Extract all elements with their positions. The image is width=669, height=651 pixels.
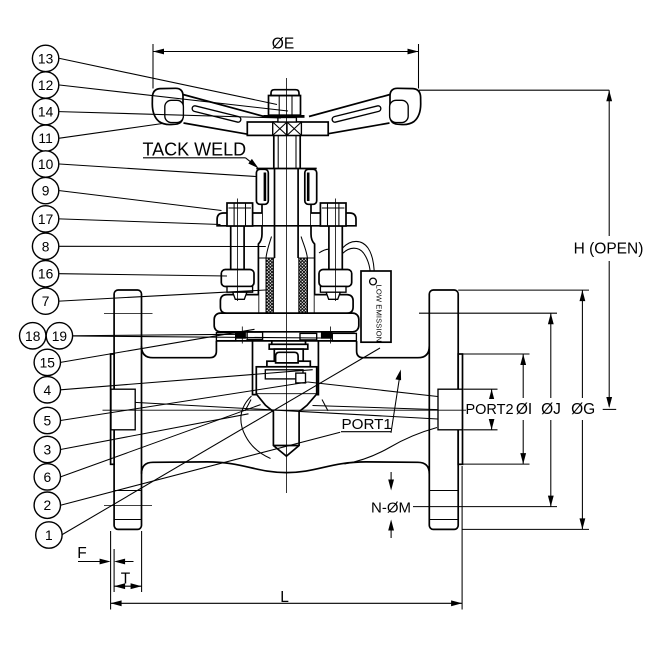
circle 19 — [46, 323, 72, 349]
svg-text:10: 10 — [38, 157, 54, 172]
low emission tag — [361, 271, 391, 342]
svg-text:11: 11 — [38, 131, 52, 146]
leader 17 — [60, 219, 221, 225]
stuffing bore flare left — [266, 237, 272, 259]
PORT1 leader — [391, 373, 400, 433]
leader 18 — [46, 334, 236, 336]
HANDWHEEL GROUP — [152, 88, 420, 135]
bolt shank left — [231, 226, 244, 270]
main vertical centerline — [286, 78, 288, 493]
packing column right (hatched) — [299, 258, 308, 313]
bolt shank right — [329, 226, 342, 270]
dim OE line — [153, 51, 419, 53]
dim T extension line — [141, 531, 143, 592]
disc nut step — [267, 361, 310, 367]
DIMENSIONS GROUP — [77, 36, 643, 610]
circle 10 — [32, 151, 58, 177]
dim H top reference line — [419, 89, 609, 91]
svg-text:16: 16 — [38, 267, 54, 282]
dim F extension lines — [111, 531, 115, 610]
dim PORT2 extension lines — [464, 389, 498, 430]
leader 10 — [60, 164, 257, 177]
svg-text:3: 3 — [43, 443, 51, 458]
dim H bottom tick — [603, 408, 617, 410]
leader 9 — [60, 191, 222, 211]
bonnet flange — [214, 313, 359, 332]
washer under nut (thick) — [264, 115, 305, 118]
dim L line — [111, 602, 463, 604]
dim OE extension lines — [153, 44, 419, 89]
bolt hole lines left flange — [114, 491, 141, 520]
bolt lower boss left — [221, 270, 254, 287]
svg-text:ØI: ØI — [516, 401, 532, 418]
svg-text:15: 15 — [40, 355, 56, 370]
seat edge left — [245, 400, 251, 411]
gland wing plate right — [311, 213, 356, 226]
rim knob right — [390, 88, 421, 124]
svg-text:N-ØM: N-ØM — [371, 500, 411, 517]
stuffing bore flare right — [301, 237, 307, 259]
circle 14 — [32, 98, 58, 124]
gland sleeve — [262, 169, 311, 226]
svg-text:19: 19 — [52, 329, 68, 344]
svg-text:L: L — [280, 589, 289, 606]
ITEM CIRCLES GROUP — [20, 45, 73, 548]
leader disc to port2 b — [313, 406, 438, 410]
spoke left — [183, 95, 264, 135]
svg-text:18: 18 — [25, 329, 41, 344]
internal wall left — [241, 396, 271, 459]
wire to tag — [319, 249, 329, 253]
flange left — [114, 290, 141, 529]
stem square top — [278, 118, 297, 123]
LABELS GROUP — [143, 140, 402, 433]
bolt lower boss right — [319, 270, 352, 287]
svg-text:ØE: ØE — [272, 36, 294, 53]
seat edge right — [322, 400, 328, 411]
port horizontal centerline — [103, 409, 467, 411]
disc holder box — [256, 367, 316, 394]
VALVE BODY GROUP — [111, 290, 463, 529]
disc spacer plate — [265, 370, 303, 379]
leader 7 — [60, 290, 266, 301]
dim OJ line — [550, 313, 552, 506]
labels row: PORT2 OI OJ OG — [464, 399, 593, 419]
svg-text:2: 2 — [43, 498, 51, 513]
gland wing plate left — [217, 213, 262, 226]
dim T line + arrows — [114, 585, 142, 587]
circle 7 — [32, 288, 58, 314]
bolt centerlines — [237, 199, 335, 302]
TAG GROUP — [319, 241, 391, 342]
svg-text:PORT1: PORT1 — [342, 416, 392, 433]
bonnet hex right end — [315, 295, 354, 314]
body chamber walls — [253, 341, 319, 395]
svg-text:T: T — [121, 571, 131, 588]
stem through gland — [275, 169, 299, 258]
circle 11 — [32, 125, 58, 151]
circle 13 — [32, 45, 58, 71]
circle 1 — [36, 522, 62, 548]
bonnet lower neck through body top — [272, 341, 306, 344]
dim PORT2 line — [491, 389, 493, 430]
dim L extension line right — [461, 466, 463, 610]
leader 6 — [61, 405, 261, 477]
rim knob left — [152, 88, 183, 124]
leader 3 — [61, 414, 249, 450]
gland top line — [256, 168, 316, 170]
packing column left (hatched) — [266, 258, 273, 313]
svg-text:5: 5 — [43, 414, 51, 429]
circle 17 — [32, 206, 58, 232]
bonnet hex left end — [220, 295, 258, 314]
leader 14 — [60, 112, 282, 118]
flange right — [429, 290, 458, 529]
svg-text:ØG: ØG — [571, 401, 595, 418]
dim OG extension lines — [458, 290, 589, 529]
hub top right — [357, 341, 430, 358]
dim OI line — [522, 354, 524, 464]
stem tip cap — [276, 352, 299, 363]
circle 16 — [32, 261, 58, 287]
svg-text:4: 4 — [43, 383, 51, 398]
circle 4 — [34, 377, 60, 403]
circle 2 — [34, 492, 60, 518]
hub band — [247, 122, 328, 135]
circle 18 — [20, 323, 46, 349]
dim OG line — [581, 290, 583, 529]
gasket square right — [321, 332, 332, 339]
circle 9 — [32, 177, 58, 203]
spoke slot right — [332, 105, 382, 123]
dim N-OM arrows — [390, 472, 392, 538]
hub bottom + ogee body bottom — [142, 462, 430, 474]
stem guide block — [274, 349, 303, 361]
tag grommet — [370, 278, 377, 285]
LEADERS GROUP — [46, 58, 438, 535]
svg-text:ØJ: ØJ — [541, 401, 561, 418]
gland bolt nut left — [227, 203, 253, 226]
leader 2 — [61, 432, 341, 505]
stem upper (below handwheel) — [274, 135, 300, 169]
svg-text:8: 8 — [42, 239, 50, 254]
backseat collar — [269, 344, 308, 349]
svg-text:TACK WELD: TACK WELD — [143, 140, 247, 160]
svg-text:9: 9 — [42, 184, 50, 199]
leader 16 — [60, 274, 228, 276]
leader 15 — [61, 329, 255, 362]
circle 15 — [34, 349, 60, 375]
circle 5 — [34, 407, 60, 433]
hub X boxes — [273, 122, 287, 135]
gland bolt nut right — [320, 203, 346, 226]
gland clip left — [256, 169, 268, 204]
svg-text:17: 17 — [38, 212, 53, 227]
internal wall right — [345, 428, 438, 465]
port box left — [111, 389, 135, 430]
svg-text:13: 13 — [38, 51, 54, 66]
dim N-OM label — [368, 498, 413, 515]
svg-text:H (OPEN): H (OPEN) — [574, 241, 644, 258]
gasket groove boxes — [216, 333, 235, 341]
dim OJ extension lines (bolt hole centers) — [411, 313, 558, 506]
circle 3 — [34, 436, 60, 462]
svg-text:12: 12 — [38, 78, 53, 93]
port box right — [438, 389, 462, 430]
leader 8 — [60, 245, 266, 247]
bolt hole lines right flange — [429, 491, 458, 520]
plug v-line — [273, 445, 299, 447]
dim F line + arrows — [78, 561, 134, 563]
leader 13 — [60, 58, 278, 104]
leader 11 — [60, 124, 163, 139]
leader disc to port2 a — [308, 382, 438, 397]
svg-text:6: 6 — [43, 470, 51, 485]
svg-text:7: 7 — [42, 294, 50, 309]
svg-text:PORT2: PORT2 — [465, 402, 513, 418]
bonnet neck flare right — [311, 226, 315, 313]
gland flange bottom line — [262, 225, 311, 227]
dim H line — [608, 90, 610, 406]
circle 6 — [34, 464, 60, 490]
spoke right — [309, 95, 390, 135]
disc spacer tab — [296, 373, 306, 383]
body top face line — [216, 340, 356, 342]
BONNET + GLAND GROUP — [214, 135, 359, 343]
gasket centerline ticks — [242, 327, 330, 344]
flange hole centerlines left — [104, 313, 153, 505]
packing top lines — [258, 257, 314, 259]
circle 12 — [32, 72, 58, 98]
circle 8 — [32, 233, 58, 259]
leader 12 — [60, 85, 289, 111]
leader port to port c — [135, 402, 438, 419]
svg-text:LOW EMISSION: LOW EMISSION — [375, 285, 384, 343]
dim OI extension lines — [463, 354, 530, 464]
CENTERLINES GROUP — [103, 78, 467, 493]
leader 19 — [73, 336, 321, 338]
spoke slot left — [192, 105, 242, 123]
leader 1 — [62, 348, 381, 535]
leader 4 — [61, 370, 313, 390]
svg-text:1: 1 — [45, 528, 53, 543]
raised face left — [111, 354, 115, 464]
gasket square left (item 18/19) — [236, 332, 246, 339]
handwheel nut — [269, 96, 301, 116]
raised face right — [458, 354, 462, 464]
hub top left — [142, 341, 217, 358]
leader 5 — [61, 382, 308, 421]
handwheel nut cap — [271, 90, 299, 96]
svg-text:F: F — [77, 545, 86, 562]
svg-text:14: 14 — [38, 105, 54, 120]
bonnet neck flare left — [258, 226, 262, 313]
gland clip right — [305, 169, 317, 204]
plug / disc — [256, 394, 316, 456]
